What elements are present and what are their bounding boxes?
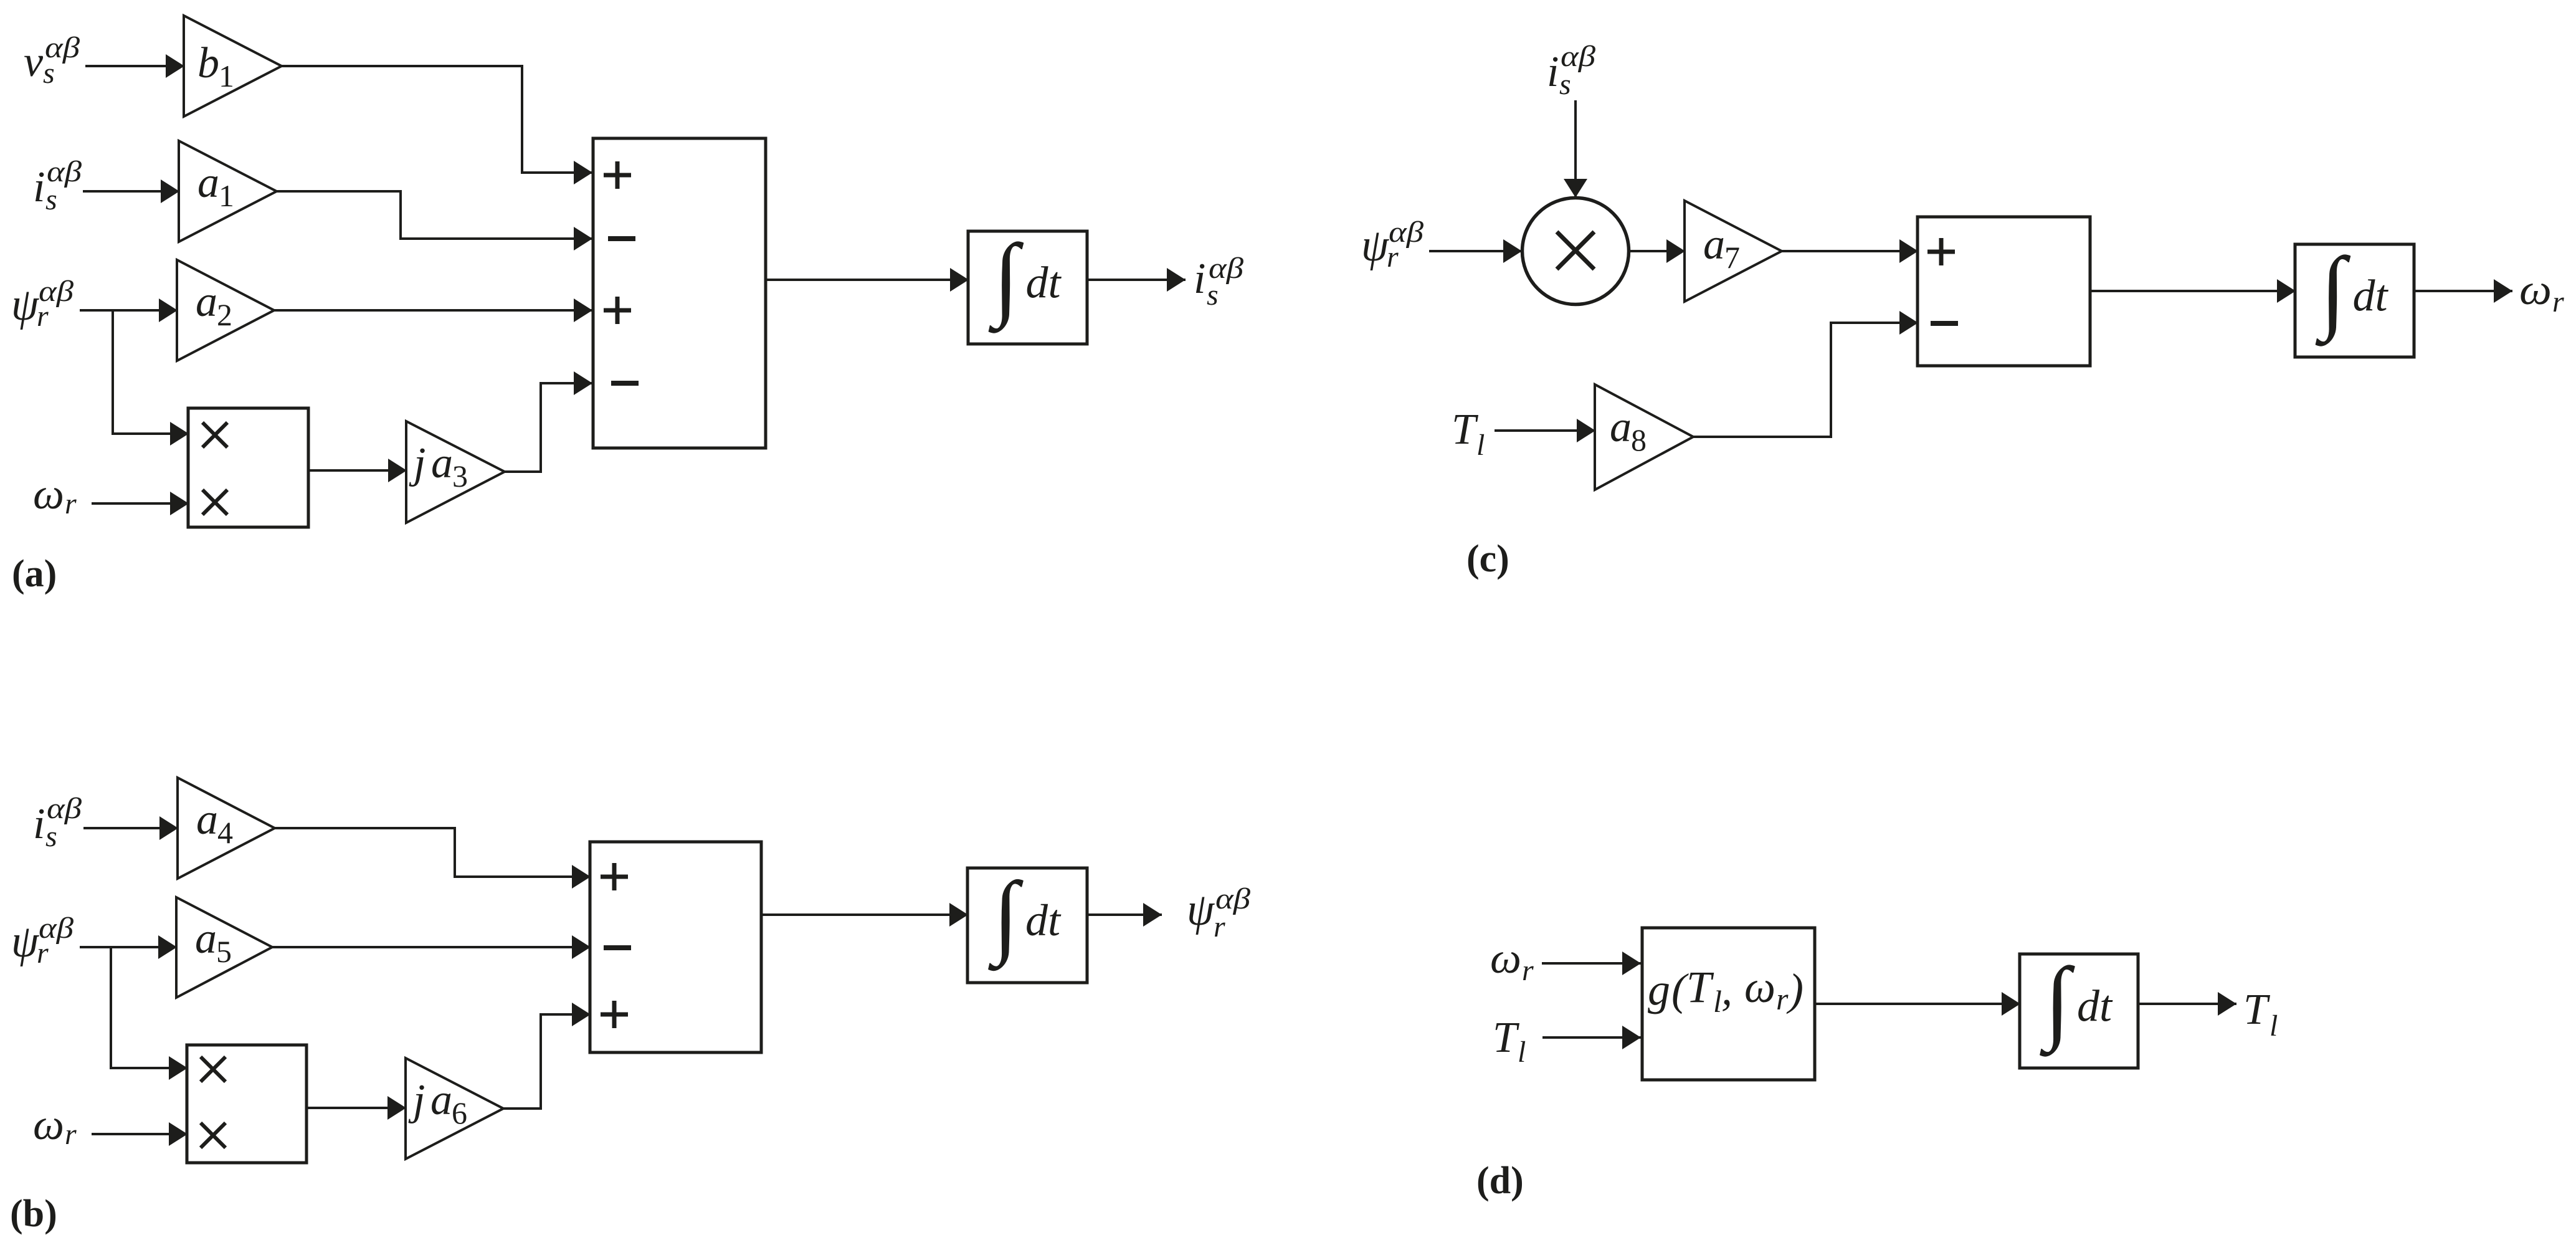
svg-text:ψ: ψ xyxy=(11,916,40,967)
svg-text:s: s xyxy=(1207,279,1219,312)
svg-text:g: g xyxy=(1648,965,1670,1014)
svg-text:i: i xyxy=(33,163,45,211)
svg-text:ω: ω xyxy=(1490,935,1521,983)
svg-text:s: s xyxy=(45,183,57,216)
svg-text:∫: ∫ xyxy=(988,863,1024,971)
svg-text:ψ: ψ xyxy=(1187,884,1215,935)
svg-text:4: 4 xyxy=(217,815,233,850)
svg-text:a: a xyxy=(195,915,217,963)
svg-text:ψ: ψ xyxy=(1361,220,1390,271)
svg-text:s: s xyxy=(1559,68,1571,101)
svg-text:∫: ∫ xyxy=(2040,949,2075,1057)
svg-text:l: l xyxy=(1518,1036,1526,1069)
svg-text:dt: dt xyxy=(1026,258,1062,308)
svg-text:a: a xyxy=(1703,221,1725,269)
svg-text:a: a xyxy=(430,1076,452,1124)
svg-text:l: l xyxy=(2269,1009,2278,1042)
svg-text:i: i xyxy=(1547,48,1559,96)
svg-text:r: r xyxy=(2552,285,2564,318)
svg-text:(c): (c) xyxy=(1466,538,1509,580)
svg-text:∫: ∫ xyxy=(989,226,1024,334)
svg-text:r: r xyxy=(65,1118,77,1151)
svg-text:): ) xyxy=(1786,965,1804,1014)
svg-text:2: 2 xyxy=(217,297,232,332)
svg-text:(b): (b) xyxy=(10,1193,57,1235)
svg-text:3: 3 xyxy=(452,459,468,494)
svg-text:(a): (a) xyxy=(12,553,57,595)
svg-text:s: s xyxy=(45,820,57,853)
svg-text:l: l xyxy=(1713,984,1722,1019)
svg-text:ω: ω xyxy=(33,1101,64,1149)
svg-text:ω: ω xyxy=(33,470,64,518)
svg-text:,: , xyxy=(1721,965,1732,1014)
svg-text:r: r xyxy=(1387,241,1399,274)
svg-text:dt: dt xyxy=(2077,981,2113,1031)
svg-text:1: 1 xyxy=(219,178,234,213)
svg-text:r: r xyxy=(37,937,49,970)
svg-text:r: r xyxy=(1214,910,1225,943)
svg-text:1: 1 xyxy=(219,59,234,93)
svg-text:ω: ω xyxy=(2519,266,2552,314)
svg-text:ω: ω xyxy=(1744,962,1775,1012)
svg-text:l: l xyxy=(1476,429,1485,462)
svg-text:6: 6 xyxy=(452,1095,467,1130)
svg-text:T: T xyxy=(1686,962,1714,1012)
svg-text:s: s xyxy=(43,57,55,90)
svg-text:ψ: ψ xyxy=(11,279,40,330)
svg-text:r: r xyxy=(1776,981,1789,1016)
svg-text:b: b xyxy=(197,39,219,87)
svg-text:7: 7 xyxy=(1724,240,1740,275)
svg-text:a: a xyxy=(431,439,453,487)
svg-text:i: i xyxy=(33,800,45,848)
svg-text:T: T xyxy=(1452,406,1479,454)
svg-text:T: T xyxy=(1493,1014,1520,1062)
svg-text:dt: dt xyxy=(1025,895,1062,945)
svg-text:a: a xyxy=(196,796,218,844)
svg-text:∫: ∫ xyxy=(2316,239,2351,347)
svg-text:a: a xyxy=(1610,403,1632,451)
svg-text:i: i xyxy=(1194,255,1205,303)
svg-text:r: r xyxy=(37,300,49,333)
svg-text:5: 5 xyxy=(216,934,232,969)
svg-text:dt: dt xyxy=(2353,271,2389,321)
svg-text:a: a xyxy=(196,278,217,326)
svg-text:(d): (d) xyxy=(1476,1160,1524,1202)
svg-text:r: r xyxy=(1522,954,1534,987)
svg-text:r: r xyxy=(65,487,77,520)
svg-text:T: T xyxy=(2243,986,2271,1034)
svg-text:8: 8 xyxy=(1631,422,1647,457)
svg-text:v: v xyxy=(24,38,44,86)
svg-text:a: a xyxy=(197,159,219,207)
